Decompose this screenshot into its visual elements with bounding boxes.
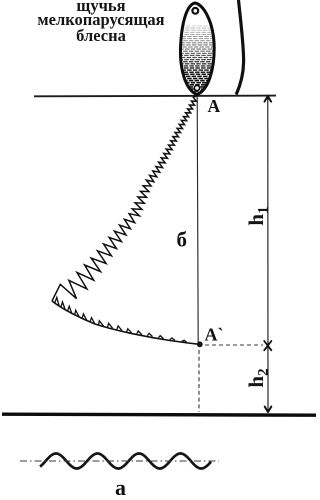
- svg-text:а: а: [115, 475, 126, 500]
- X mark at A' level: [264, 341, 271, 350]
- dashed horizontal from A' to dimension line: [205, 344, 263, 346]
- svg-text:h1: h1: [244, 206, 272, 225]
- spoon lure body: [176, 3, 218, 95]
- water surface line: [34, 95, 276, 98]
- dashed vertical from A' to bottom: [198, 350, 200, 412]
- sink path arc ticks: [55, 297, 187, 342]
- node A' dot: [197, 341, 203, 347]
- bottom ground line: [2, 414, 316, 415]
- oscillation wave a: [40, 454, 211, 469]
- dimension line h1+h2: [267, 98, 269, 411]
- sink path zigzag (descent): [52, 96, 197, 301]
- dash-dot centerline of wave: [20, 460, 219, 462]
- svg-text:A: A: [208, 96, 221, 116]
- vertical line b from A to A': [197, 96, 198, 344]
- rod tip: [236, 0, 243, 95]
- lure bottom hole: [194, 85, 199, 90]
- svg-text:блесна: блесна: [76, 26, 126, 45]
- sink path bottom arc: [52, 301, 200, 344]
- title label: щучья мелкопарусящая блесна: [37, 0, 164, 45]
- svg-text:A`: A`: [205, 325, 224, 345]
- lure top hole: [192, 8, 198, 14]
- arrowhead up: [265, 96, 272, 101]
- svg-text:б: б: [177, 228, 188, 252]
- arrowhead down: [265, 407, 272, 412]
- svg-text:h2: h2: [244, 368, 272, 387]
